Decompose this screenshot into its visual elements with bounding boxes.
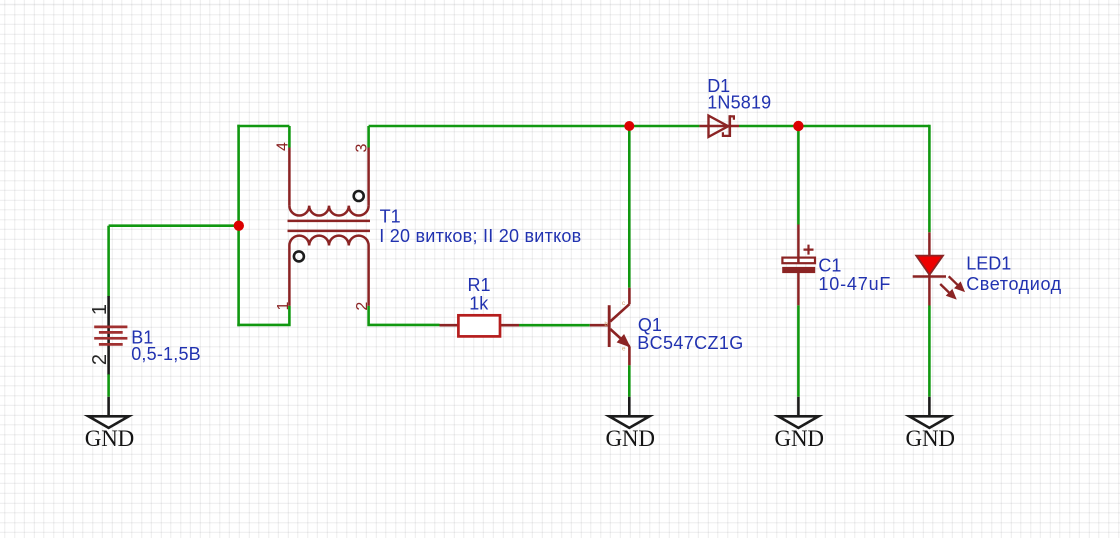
svg-text:0,5-1,5В: 0,5-1,5В	[131, 344, 201, 364]
junction dot diode left	[624, 121, 634, 131]
wire collector vertical	[628, 126, 631, 288]
svg-text:c: c	[622, 300, 626, 307]
junction dot diode right	[793, 121, 803, 131]
ground C1	[775, 397, 825, 451]
svg-text:1k: 1k	[469, 294, 489, 314]
svg-text:Светодиод: Светодиод	[966, 274, 1061, 294]
junction dot left	[234, 221, 244, 231]
svg-text:BC547CZ1G: BC547CZ1G	[637, 333, 743, 353]
capacitor C1	[782, 225, 815, 306]
svg-text:2: 2	[354, 302, 371, 311]
svg-text:GND: GND	[85, 426, 135, 451]
svg-text:b: b	[604, 321, 608, 328]
svg-text:LED1: LED1	[966, 253, 1011, 273]
svg-text:R1: R1	[468, 275, 491, 295]
wire LED branch vertical	[928, 125, 931, 233]
LED LED1	[913, 232, 964, 305]
wire top-left horizontal to pin4	[237, 126, 289, 148]
svg-text:GND: GND	[775, 426, 825, 451]
wire pin2 stub to bottom rail	[367, 306, 439, 326]
transistor Q1	[590, 288, 630, 365]
svg-text:T1: T1	[380, 207, 401, 227]
svg-text:C1: C1	[818, 256, 841, 276]
ground LED1	[906, 397, 956, 451]
svg-text:2: 2	[89, 354, 111, 365]
svg-text:3: 3	[353, 143, 370, 152]
svg-text:1: 1	[275, 302, 292, 311]
svg-text:GND: GND	[605, 426, 655, 451]
transformer T1	[274, 142, 371, 311]
battery B1	[89, 296, 127, 374]
wire bottom-left horizontal to pin1	[237, 306, 289, 326]
svg-text:4: 4	[274, 142, 291, 151]
wire battery vertical green	[107, 226, 110, 397]
diode D1	[699, 115, 739, 137]
wire emitter to ground	[628, 365, 631, 397]
svg-text:I 20 витков; II 20 витков: I 20 витков; II 20 витков	[379, 226, 581, 246]
wire C1 branch vertical	[797, 126, 800, 225]
wire R1 right to Q1 base	[519, 324, 590, 327]
svg-text:e: e	[622, 346, 626, 353]
resistor R1	[440, 315, 520, 336]
wire battery to junction	[109, 224, 239, 227]
svg-text:Q1: Q1	[638, 315, 662, 335]
svg-text:10-47uF: 10-47uF	[818, 274, 890, 294]
wire left vertical net	[237, 125, 240, 327]
svg-text:GND: GND	[906, 426, 956, 451]
svg-text:1: 1	[89, 304, 111, 315]
ground Q1	[605, 397, 655, 451]
ground battery	[85, 397, 135, 451]
svg-text:1N5819: 1N5819	[707, 93, 771, 113]
wire LED to ground	[928, 306, 931, 397]
wire pin3 stub to top rail	[367, 126, 370, 148]
wire top rail right of diode	[739, 125, 929, 128]
wire top rail left of diode	[369, 125, 700, 128]
wire C1 to ground	[797, 305, 800, 397]
